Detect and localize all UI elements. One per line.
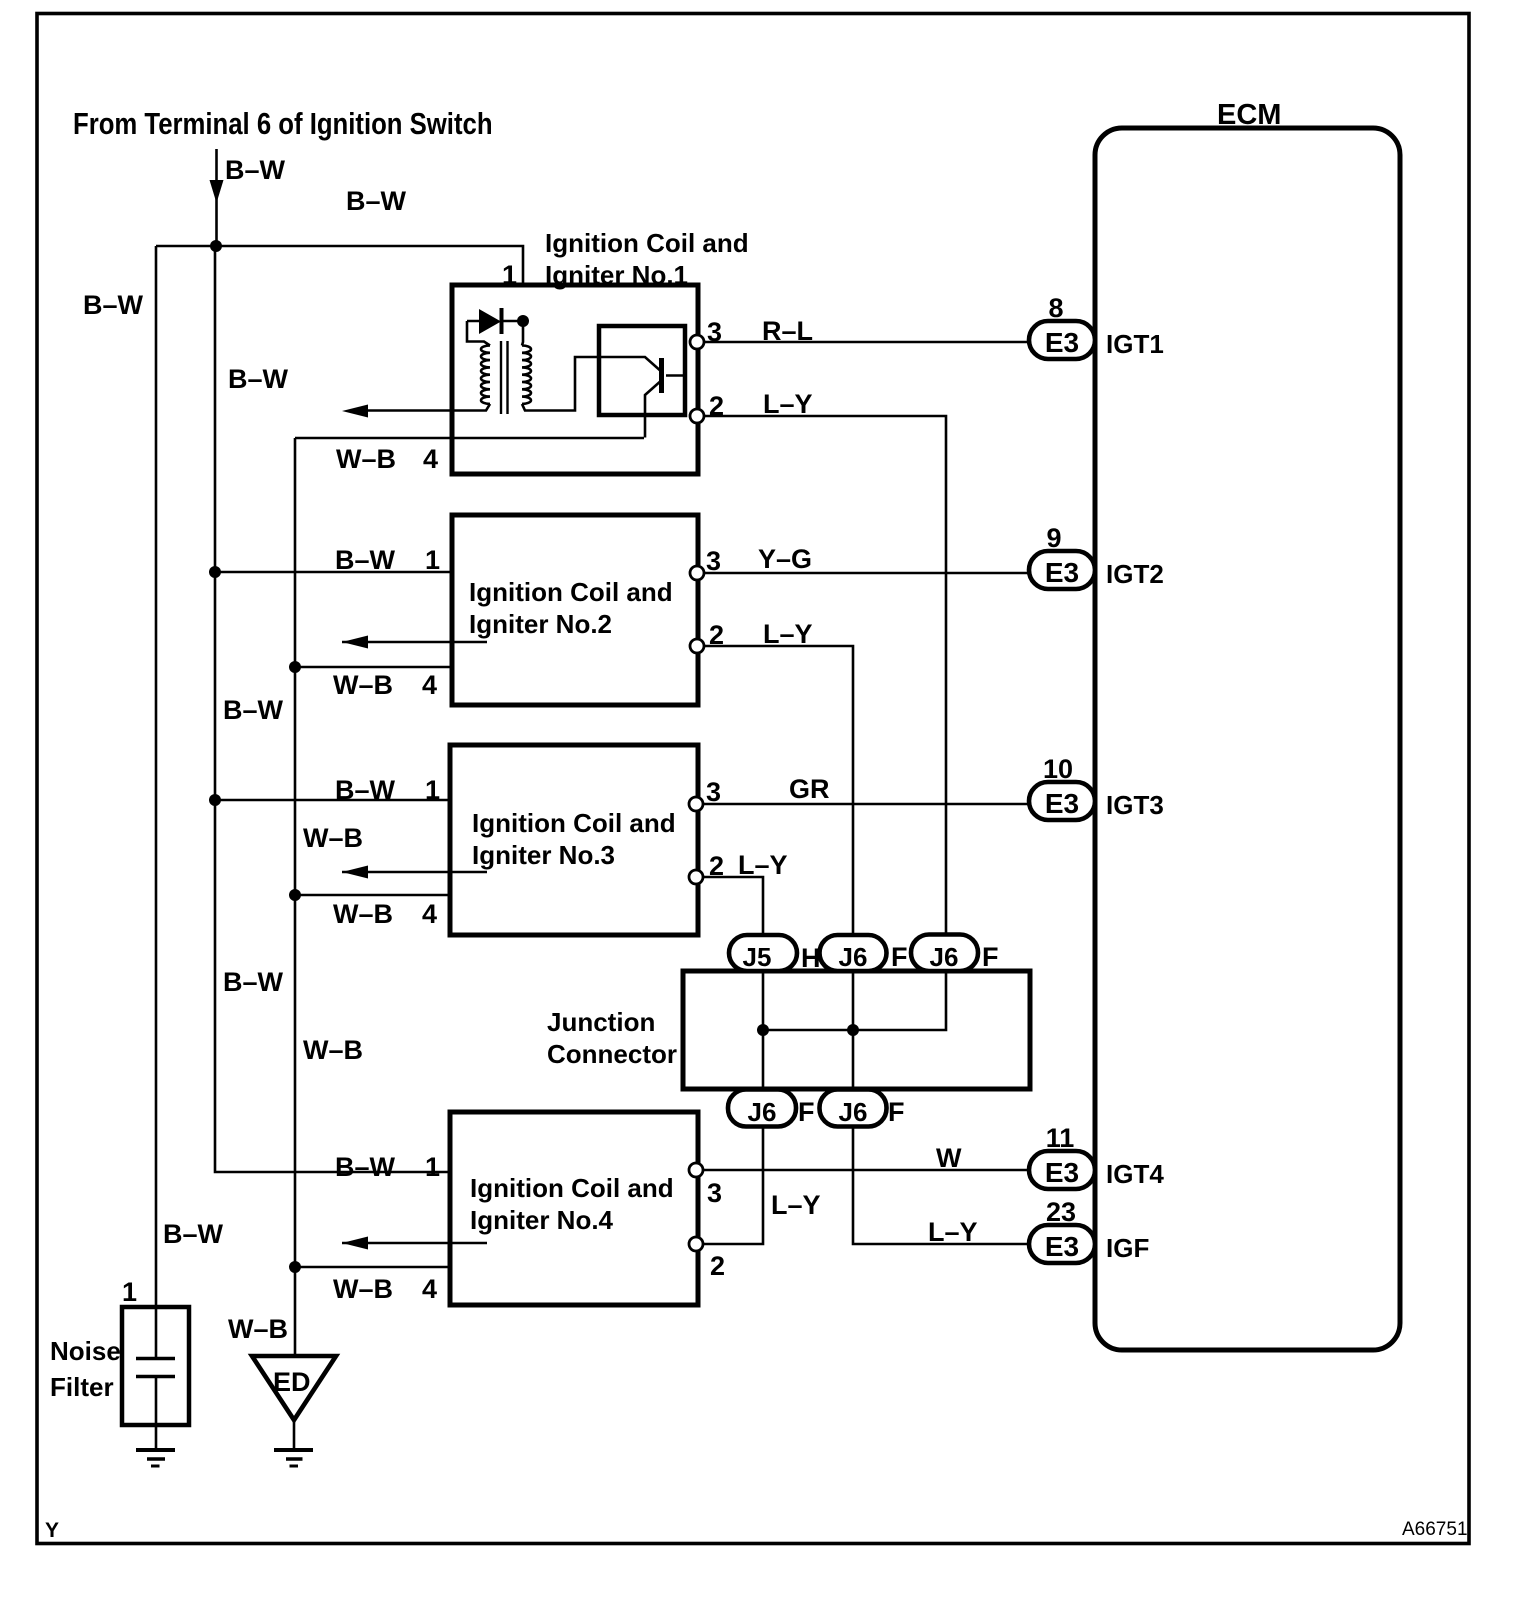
pin 2 coil3 (689, 870, 703, 884)
node W-B coil3 tap (289, 889, 301, 901)
connector E3 pin9 (1029, 551, 1095, 589)
transformer T1 secondary winding (right) (522, 346, 531, 404)
svg-text:IGT4: IGT4 (1106, 1159, 1164, 1189)
svg-text:W: W (936, 1143, 962, 1173)
arrow line coil2 (342, 641, 487, 644)
svg-text:B–W: B–W (225, 155, 286, 185)
ground under noise filter (136, 1448, 175, 1452)
svg-text:IGT2: IGT2 (1106, 559, 1164, 589)
svg-text:IGF: IGF (1106, 1233, 1149, 1263)
connector E3 pin23 (1029, 1225, 1095, 1263)
svg-text:Ignition Coil and: Ignition Coil and (470, 1173, 674, 1203)
svg-text:GR: GR (789, 774, 830, 804)
svg-text:B–W: B–W (335, 775, 396, 805)
arrow out of coil1 (342, 405, 368, 418)
ignition coil and igniter no.2 box (452, 515, 698, 705)
svg-text:23: 23 (1046, 1197, 1076, 1227)
wire W-B main ground vertical (294, 438, 297, 1356)
svg-text:F: F (888, 1097, 905, 1127)
svg-text:Igniter No.2: Igniter No.2 (469, 609, 612, 639)
svg-text:B–W: B–W (83, 290, 144, 320)
wire W-B coil1 pin4 (295, 437, 644, 440)
ED lead to ground (293, 1420, 296, 1449)
transistor Q1 box (599, 326, 685, 415)
svg-text:IGT1: IGT1 (1106, 329, 1164, 359)
svg-text:1: 1 (122, 1277, 137, 1307)
svg-text:H: H (801, 943, 821, 973)
svg-text:F: F (891, 942, 908, 972)
svg-text:L–Y: L–Y (763, 619, 813, 649)
svg-text:B–W: B–W (228, 364, 289, 394)
noise filter box (122, 1307, 189, 1425)
wire W-B coil4 pin4 (295, 1266, 450, 1269)
svg-text:F: F (982, 942, 999, 972)
wire L-Y coil1 pin2 to junction connector (704, 416, 946, 1030)
node junction connector left (757, 1024, 769, 1036)
connector J5 top (729, 935, 797, 971)
svg-text:IGT3: IGT3 (1106, 790, 1164, 820)
svg-text:W–B: W–B (333, 899, 393, 929)
svg-text:10: 10 (1043, 754, 1073, 784)
svg-text:B–W: B–W (335, 545, 396, 575)
secondary bottom to transistor base (522, 357, 599, 411)
arrow to ignition switch (top) (210, 180, 224, 203)
svg-text:J5: J5 (743, 942, 772, 972)
pin 3 coil4 (689, 1163, 703, 1177)
connector J6 bottom right (820, 1090, 887, 1127)
transformer T1 core (501, 341, 508, 414)
pin 2 coil4 (689, 1237, 703, 1251)
arrow out of coil4 (342, 1237, 368, 1250)
pin 3 coil1 (690, 335, 704, 349)
svg-text:4: 4 (422, 670, 437, 700)
diode D1 (479, 309, 501, 334)
svg-text:W–B: W–B (228, 1314, 288, 1344)
connector E3 pin11 (1029, 1151, 1095, 1189)
svg-text:2: 2 (709, 620, 724, 650)
svg-text:L–Y: L–Y (763, 389, 813, 419)
svg-text:8: 8 (1048, 293, 1063, 323)
svg-text:L–Y: L–Y (738, 850, 788, 880)
connector J6 top left (820, 935, 887, 971)
svg-text:4: 4 (422, 1274, 437, 1304)
wire W-B coil3 pin4 (295, 894, 450, 897)
arrow out of coil2 (342, 636, 368, 649)
svg-text:1: 1 (425, 1152, 440, 1182)
junction connector box (683, 971, 1030, 1089)
transformer T1 primary top connection from diode node (522, 321, 523, 346)
svg-text:3: 3 (706, 546, 721, 576)
noise filter lead to ground (155, 1376, 158, 1449)
svg-text:A66751: A66751 (1402, 1519, 1468, 1540)
pin 3 coil3 (689, 797, 703, 811)
pin 2 coil2 (690, 639, 704, 653)
svg-text:W–B: W–B (303, 1035, 363, 1065)
svg-text:9: 9 (1046, 523, 1061, 553)
svg-text:3: 3 (707, 317, 722, 347)
svg-text:W–B: W–B (303, 823, 363, 853)
wire W-B coil2 pin4 (295, 666, 452, 669)
svg-text:Connector: Connector (547, 1039, 677, 1069)
svg-text:Ignition Coil and: Ignition Coil and (472, 808, 676, 838)
wire B-W to coil 2 (215, 571, 452, 574)
wire B-W main vertical feed (215, 246, 450, 1172)
arrow out of coil3 (342, 866, 368, 879)
svg-text:3: 3 (707, 1178, 722, 1208)
wire L-Y coil3 pin2 to junction to coil4 pin2 (704, 877, 763, 1244)
svg-text:Junction: Junction (547, 1007, 655, 1037)
svg-text:11: 11 (1046, 1123, 1075, 1153)
svg-text:4: 4 (423, 444, 438, 474)
svg-text:ECM: ECM (1217, 99, 1281, 131)
node W-B coil2 tap (289, 661, 301, 673)
svg-text:E3: E3 (1045, 788, 1079, 819)
svg-text:1: 1 (502, 260, 517, 290)
svg-text:Ignition Coil and: Ignition Coil and (469, 577, 673, 607)
svg-text:W–B: W–B (336, 444, 396, 474)
svg-text:2: 2 (709, 851, 724, 881)
wire from ignition switch (215, 149, 218, 246)
node B-W coil2 tap (209, 566, 221, 578)
svg-text:B–W: B–W (163, 1219, 224, 1249)
connector J6 top right (911, 935, 978, 972)
svg-text:Y–G: Y–G (758, 544, 812, 574)
svg-text:4: 4 (422, 899, 437, 929)
svg-text:E3: E3 (1045, 1231, 1079, 1262)
svg-text:From Terminal 6 of Ignition Sw: From Terminal 6 of Ignition Switch (73, 107, 493, 142)
svg-text:ED: ED (273, 1367, 311, 1397)
noise filter capacitor plates (136, 1359, 175, 1377)
ground symbol ED triangle (252, 1356, 336, 1420)
svg-text:J6: J6 (839, 942, 868, 972)
pin circles (689, 335, 704, 1251)
wire B-W left drop to noise filter (155, 246, 158, 1358)
svg-text:R–L: R–L (762, 316, 813, 346)
svg-text:Y: Y (45, 1519, 59, 1542)
svg-text:E3: E3 (1045, 557, 1079, 588)
svg-text:L–Y: L–Y (771, 1190, 821, 1220)
primary winding bottom to arrow line (368, 404, 490, 411)
ignition coil and igniter no.1 box (122, 285, 1030, 1425)
svg-text:J6: J6 (839, 1097, 868, 1127)
ignition coil and igniter no.3 box (450, 745, 698, 935)
svg-text:B–W: B–W (223, 967, 284, 997)
svg-text:B–W: B–W (223, 695, 284, 725)
svg-text:1: 1 (425, 775, 440, 805)
node junction connector right (847, 1024, 859, 1036)
svg-text:B–W: B–W (335, 1152, 396, 1182)
svg-text:B–W: B–W (346, 186, 407, 216)
svg-text:Noise: Noise (50, 1336, 121, 1366)
wire B-W horizontal top (156, 246, 523, 285)
svg-text:E3: E3 (1045, 1157, 1079, 1188)
svg-text:Igniter No.3: Igniter No.3 (472, 840, 615, 870)
node B-W coil3 tap (209, 794, 221, 806)
svg-text:L–Y: L–Y (928, 1217, 978, 1247)
svg-text:J6: J6 (930, 942, 959, 972)
connector E3 pin10 (1029, 782, 1095, 820)
ground under ED (274, 1448, 313, 1452)
wire GR coil3 pin3 to IGT3 (704, 803, 1029, 806)
transistor Q1 symbol (599, 357, 663, 373)
coil1 internals (368, 321, 685, 438)
arrow line coil4 (342, 1242, 487, 1245)
svg-text:W–B: W–B (333, 1274, 393, 1304)
svg-text:E3: E3 (1045, 327, 1079, 358)
node diode/coil junction (517, 315, 529, 327)
arrow line coil3 (342, 871, 487, 874)
svg-text:2: 2 (710, 1251, 725, 1281)
wire B-W to coil 3 (215, 799, 450, 802)
ignition coil and igniter no.4 box (450, 1112, 698, 1305)
pin 3 coil2 (690, 566, 704, 580)
svg-text:F: F (798, 1097, 815, 1127)
transformer T1 primary winding (left) (481, 346, 490, 404)
connector ovals (728, 321, 1095, 1263)
svg-text:Igniter No.4: Igniter No.4 (470, 1205, 614, 1235)
svg-text:Filter: Filter (50, 1372, 114, 1402)
svg-text:Igniter No.1: Igniter No.1 (545, 260, 688, 290)
wire L-Y coil2 pin2 to junction and IGF (704, 646, 1029, 1244)
node B-W top junction (210, 240, 222, 252)
connector E3 pin8 (1029, 321, 1095, 359)
svg-text:Ignition Coil and: Ignition Coil and (545, 228, 749, 258)
node W-B coil4 tap (289, 1261, 301, 1273)
svg-text:3: 3 (706, 777, 721, 807)
pin 2 coil1 (690, 409, 704, 423)
connector J6 bottom left (728, 1090, 796, 1127)
wire Y-G coil2 pin3 to IGT2 (704, 572, 1029, 575)
diode D1 anode lead (467, 321, 490, 346)
svg-text:J6: J6 (748, 1097, 777, 1127)
svg-text:W–B: W–B (333, 670, 393, 700)
wire W coil4 pin3 to IGT4 (704, 1169, 1029, 1172)
wire R-L coil1 pin3 to IGT1 (704, 341, 1029, 344)
svg-text:2: 2 (709, 391, 724, 421)
ECM box U1 (1095, 128, 1400, 1350)
svg-text:1: 1 (425, 545, 440, 575)
